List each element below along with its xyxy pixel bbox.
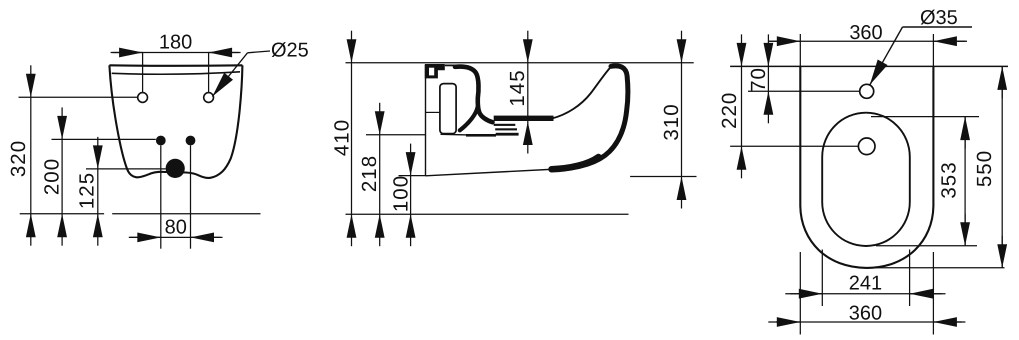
seat band [494,116,554,121]
svg-text:Ø35: Ø35 [920,7,958,29]
underside slope [426,169,558,176]
dim 550 line [1001,66,1003,267]
svg-text:220: 220 [718,92,741,129]
side baseline [346,213,629,215]
dim 241 ext lines [821,250,823,307]
side top ref line [346,62,694,64]
dia35 leader [870,27,903,85]
svg-text:180: 180 [159,32,192,54]
dim 360 top ext [799,34,801,66]
dim 125 ref [86,168,166,170]
dim 310 bottom ref [630,176,696,178]
fixing dot right [186,136,196,146]
dim 550 bottom ref [868,267,1005,269]
dim 145 line [527,63,529,122]
svg-text:360: 360 [849,22,882,44]
rim J-curve [455,67,493,123]
dim 310 line [681,63,683,177]
svg-text:100: 100 [390,175,413,212]
svg-text:353: 353 [938,161,961,198]
top view rim outline [800,66,933,268]
dim 200 ref [52,138,156,140]
dim 80 line [130,236,221,238]
dim 353 line [964,117,966,246]
dim 320 line [30,97,32,213]
dim 320 ref [19,96,138,98]
svg-text:310: 310 [660,103,683,140]
dim 180 ext lines [142,53,144,93]
bowl hole circle [858,138,875,155]
wall bracket [425,64,445,78]
inlet box [440,84,456,134]
dim 125 line [97,169,99,214]
top view wall line [730,65,1008,67]
dim 353 refs [871,116,979,118]
inner bowl line [552,67,611,118]
bracket-rim connector line [445,64,456,66]
dim 410 line [351,63,353,215]
svg-text:80: 80 [165,217,187,239]
svg-text:125: 125 [76,172,99,209]
mounting hole left [138,93,148,103]
dim 218 line [379,135,381,214]
svg-text:200: 200 [41,158,64,195]
dim 180 line [113,52,239,54]
dim 70 line [767,66,769,91]
svg-text:550: 550 [973,150,996,187]
dim 220 line [741,66,743,146]
wall line [425,65,427,176]
trap bottom line [441,133,469,136]
dim 360 bottom line [776,321,962,323]
dim 200 line [61,139,63,213]
front view bidet outline [109,64,242,67]
wall-box line [426,111,440,113]
front baseline [20,213,104,215]
backrest outer [553,66,628,170]
dim 80 ext lines [160,145,162,248]
dim 70 ref [748,90,860,92]
svg-text:218: 218 [358,155,381,192]
jet funnel stripes [494,124,516,126]
dim 241 line [785,293,945,295]
drain dot [166,159,185,178]
svg-text:360: 360 [849,303,882,325]
svg-text:320: 320 [7,140,30,177]
mounting hole right [204,93,214,103]
dim 220 ref [730,145,858,147]
dim 100 line [410,176,412,215]
svg-text:70: 70 [747,67,770,92]
dim 100 ref [399,175,426,177]
tap hole circle [860,84,874,98]
svg-text:145: 145 [506,69,529,106]
svg-text:410: 410 [331,119,354,156]
svg-text:241: 241 [849,273,882,295]
dia25 leader [212,53,247,97]
svg-text:Ø25: Ø25 [271,40,309,62]
bowl oval [822,113,910,246]
dim 360 bottom ext [799,252,801,335]
fixing dot left [156,136,166,146]
dim 360 top line [769,40,967,42]
dim 218 ref [366,134,426,136]
